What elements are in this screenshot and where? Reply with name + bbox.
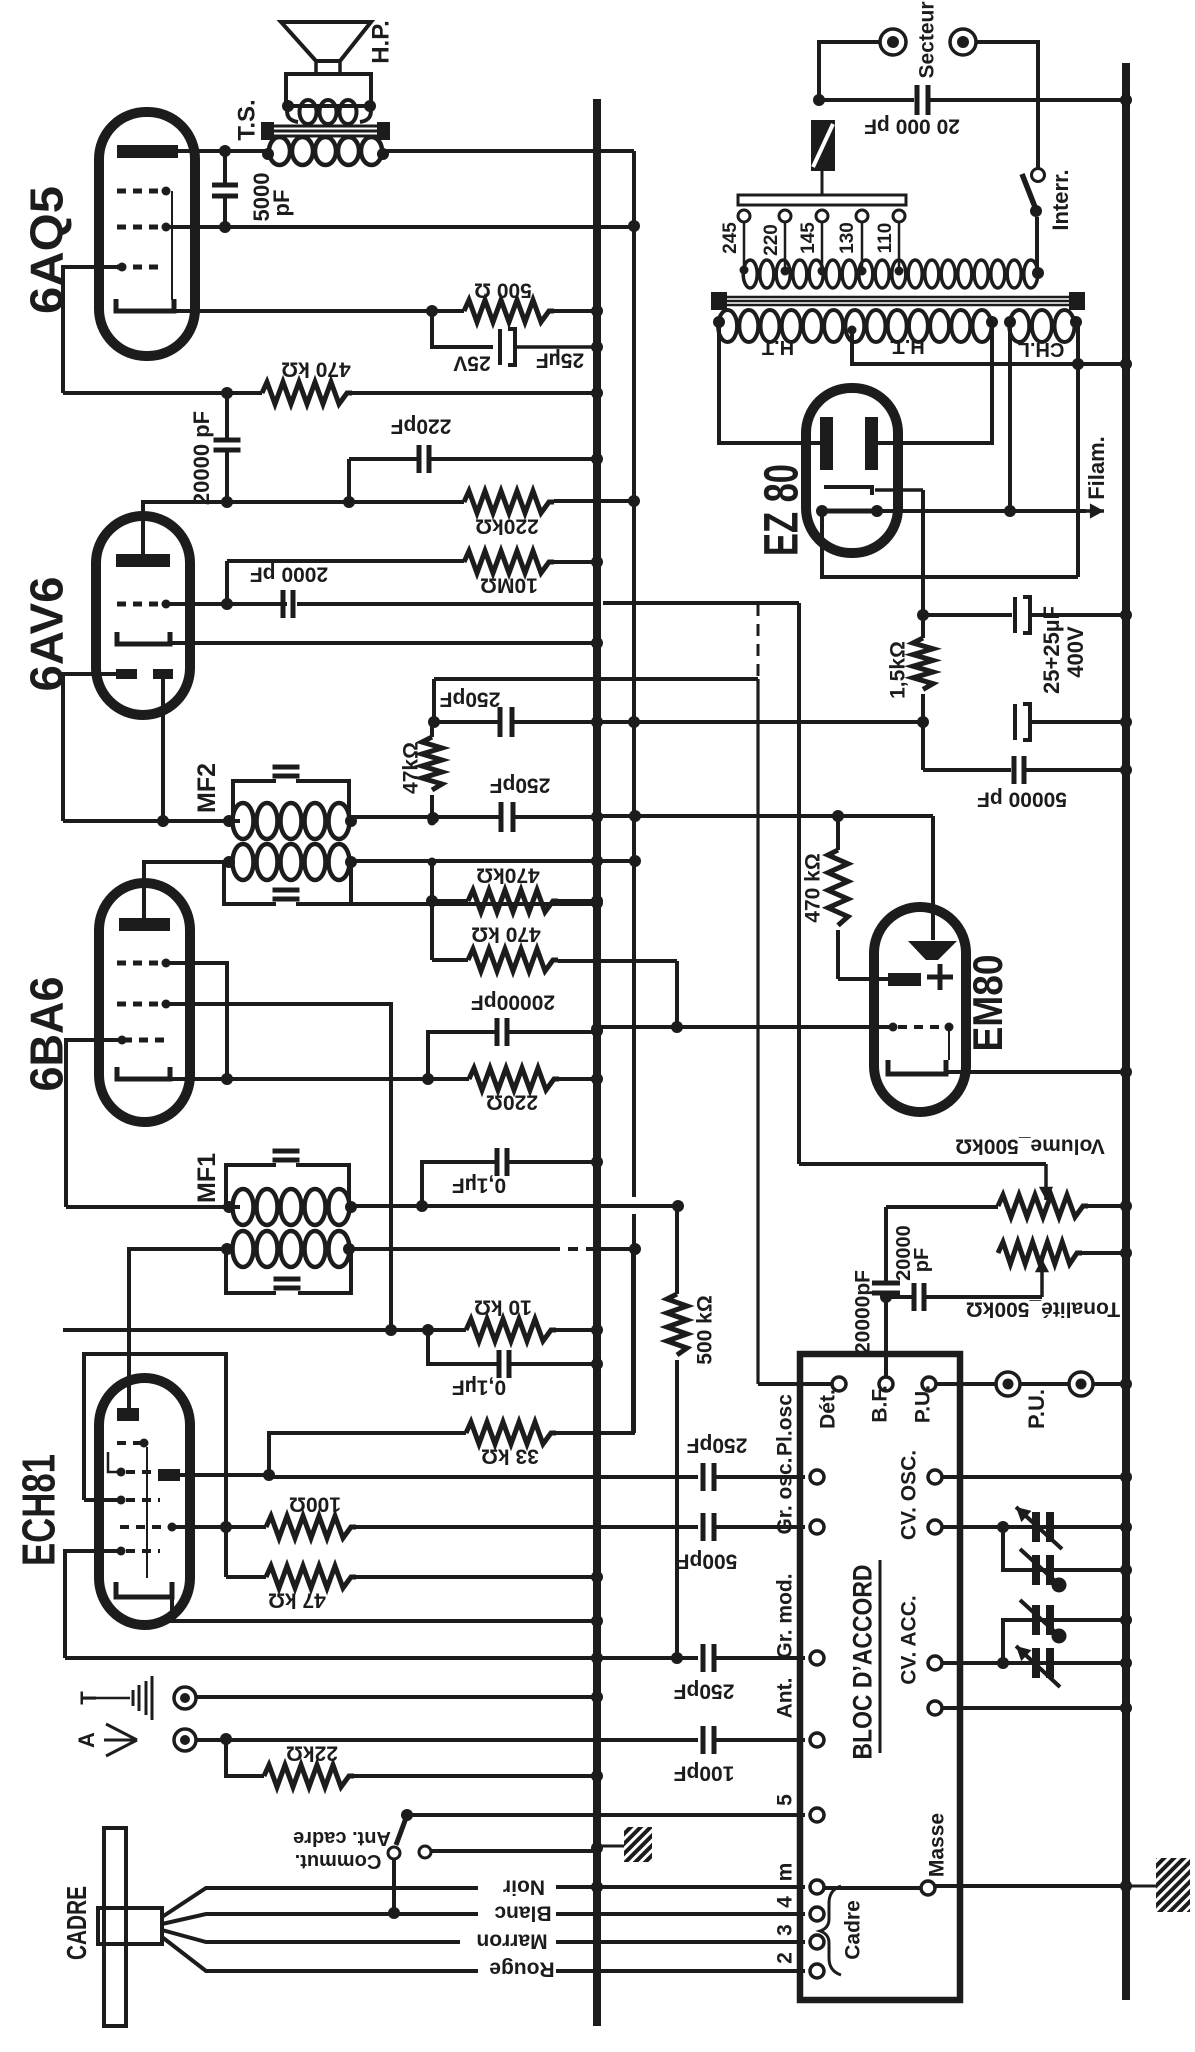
svg-text:100Ω: 100Ω	[289, 1492, 341, 1515]
svg-text:250pF: 250pF	[673, 1679, 734, 1702]
svg-text:CV. OSC.: CV. OSC.	[898, 1450, 921, 1540]
wire 6BA6 cathode row	[170, 1077, 469, 1081]
terminal 4	[810, 1907, 824, 1921]
svg-text:25+25µF: 25+25µF	[1039, 606, 1064, 694]
svg-text:110: 110	[875, 223, 896, 254]
terminal P.U. (block)	[922, 1377, 936, 1391]
svg-text:220: 220	[761, 224, 782, 256]
terminal Gr. mod.	[810, 1651, 824, 1665]
trimmer capacitor acc 2	[1003, 1661, 1126, 1665]
svg-text:10MΩ: 10MΩ	[480, 573, 538, 596]
ECH81 heptode plate bar	[158, 1469, 180, 1481]
svg-text:Dét.: Dét.	[817, 1389, 840, 1429]
svg-text:20000pF: 20000pF	[471, 990, 555, 1013]
svg-text:H.P.: H.P.	[368, 20, 395, 64]
svg-text:250pF: 250pF	[686, 1433, 747, 1456]
wire 6AQ5 cathode row	[174, 309, 464, 313]
ground hatch (chassis) near bus	[601, 1845, 624, 1848]
svg-text:Gr. mod.: Gr. mod.	[774, 1573, 797, 1658]
trimmer capacitor osc 2 loop	[1003, 1527, 1126, 1570]
svg-text:25µF: 25µF	[536, 348, 584, 371]
MF1 secondary tank box	[226, 1249, 351, 1293]
wire MF2 box to ground bus	[351, 902, 597, 906]
svg-text:CH.L: CH.L	[1018, 338, 1065, 360]
wire 6AQ5 grid feedback loop	[63, 267, 122, 393]
terminal CV OSC	[928, 1470, 942, 1484]
resistor 500 kΩ	[675, 1206, 679, 1294]
wire detector row to bus	[351, 859, 597, 863]
EM80 target	[908, 941, 957, 960]
svg-text:470kΩ: 470kΩ	[476, 863, 540, 886]
EM80 grid bar	[888, 973, 921, 986]
switch Interr.	[1032, 169, 1045, 182]
wire EM80 grid row to bus	[597, 1025, 893, 1029]
capacitor 500pF (Gr.osc)	[701, 1513, 706, 1541]
svg-text:Secteur: Secteur	[916, 1, 939, 78]
6AQ5 control grid (dashed)	[117, 265, 160, 270]
capacitor 100pF (Ant)	[701, 1726, 706, 1754]
capacitor 50000pF	[1012, 756, 1017, 784]
capacitor 25+25µF second	[1013, 704, 1017, 740]
MF2 primary winding	[233, 803, 254, 839]
tap plug 130	[856, 210, 868, 222]
6AQ5 grid 3 (dashed)	[117, 189, 160, 194]
wire AVC row to EM80 grid row	[675, 961, 679, 1027]
capacitor 250pF (Gr.mod)	[701, 1644, 706, 1672]
wire switch common to terminal 5 row	[407, 1813, 805, 1817]
EM80 cathode	[888, 1060, 946, 1074]
wire 470k to grid bar	[838, 977, 888, 981]
loudspeaker H.P. horn	[281, 22, 371, 61]
svg-text:220pF: 220pF	[390, 414, 451, 437]
ECH81 internal screen link	[146, 1447, 148, 1578]
resistor 10kΩ	[466, 1319, 556, 1341]
capacitor 20000pF (B.F.)	[872, 1281, 900, 1286]
wire switch to transformer primary	[1035, 217, 1039, 273]
wire mains left to fuse	[819, 42, 880, 100]
resistor 470kΩ (AVC upper)	[426, 895, 438, 907]
capacitor 0,1µF (AVC)	[422, 1162, 496, 1206]
terminal 2	[810, 1964, 824, 1978]
wire 220pF stub	[347, 459, 351, 502]
wire MF1 secondary to ECH81	[129, 1249, 227, 1408]
svg-text:470 kΩ: 470 kΩ	[471, 922, 540, 945]
wire MF1 secondary row (dash-dot) to B+ vertical	[352, 1247, 560, 1251]
wire detector vertical (dashed section)	[757, 604, 760, 679]
wire grid1 row with 100Ω	[172, 1525, 266, 1529]
6AQ5 anode plate	[117, 145, 178, 158]
svg-text:1,5kΩ: 1,5kΩ	[887, 641, 910, 699]
svg-text:ECH81: ECH81	[13, 1454, 65, 1566]
wire HT left to EZ80 plate	[719, 322, 820, 443]
resistor 470kΩ (6AQ5 grid)	[262, 382, 352, 404]
wire B+ row	[434, 720, 498, 724]
svg-text:m: m	[774, 1863, 797, 1882]
capacitor 5000pF	[223, 155, 227, 185]
terminal 5	[810, 1808, 824, 1822]
svg-text:T.S.: T.S.	[234, 99, 261, 140]
terminal Masse	[824, 1886, 921, 1890]
wire Masse to chassis ground	[935, 1884, 1126, 1888]
svg-text:250pF: 250pF	[489, 773, 550, 796]
6BA6 anode plate	[119, 918, 170, 931]
capacitor 25µF 25V electrolytic	[498, 329, 502, 365]
potentiometer Tonalité 500kΩ	[998, 1242, 1082, 1264]
svg-text:0,1µF: 0,1µF	[452, 1173, 506, 1196]
arrow Filam.	[1086, 509, 1104, 513]
wire CH.L right to cathode loop	[1076, 322, 1080, 577]
MF2 primary capacitor	[273, 765, 300, 770]
svg-text:EZ 80: EZ 80	[755, 464, 808, 556]
voice coil of loudspeaker	[300, 100, 317, 124]
wire bus bridge to B+ vertical	[597, 859, 635, 863]
wire EM80 branch vertical	[797, 603, 801, 1164]
47kΩ vertical resistor	[430, 722, 434, 737]
ground hatch (chassis) right	[1156, 1858, 1190, 1912]
wire detector vertical to Det terminal	[756, 679, 759, 1384]
terminal Gr. osc.	[810, 1520, 824, 1534]
wire heptode plate row	[180, 1473, 269, 1477]
svg-text:4: 4	[774, 1896, 797, 1908]
terminal Secteur left	[880, 29, 906, 55]
wire 470k node to detector row	[430, 862, 434, 901]
wire grid4 to outer loop	[84, 1498, 121, 1502]
wire Gr.mod row	[65, 1656, 597, 1660]
wire between jacks	[1020, 1382, 1069, 1386]
svg-text:500 Ω: 500 Ω	[474, 278, 532, 301]
resistor 220Ω	[469, 1068, 559, 1090]
terminal Det	[758, 1382, 832, 1386]
MF1 secondary winding	[233, 1231, 254, 1267]
wire B.F. vertical	[884, 1207, 888, 1283]
EM80 internal link	[948, 1027, 950, 1060]
resistor 22kΩ	[264, 1765, 354, 1787]
wire MF1 primary row	[66, 1205, 240, 1209]
wire cadre Blanc	[162, 1914, 478, 1924]
svg-text:20 000 pF: 20 000 pF	[864, 114, 960, 137]
svg-text:5: 5	[774, 1794, 797, 1806]
wire grid row to 2000pF	[166, 602, 287, 606]
underline	[879, 1560, 882, 1753]
svg-text:33 kΩ: 33 kΩ	[481, 1444, 539, 1467]
wire tone branch	[886, 1295, 913, 1299]
ECH81 grid3 (dashed)	[117, 1547, 126, 1556]
MF1 primary winding	[233, 1189, 254, 1225]
wire EM80 target feed row	[597, 814, 933, 818]
svg-text:CADRE: CADRE	[61, 1886, 92, 1960]
svg-text:2: 2	[774, 1952, 797, 1964]
svg-text:220Ω: 220Ω	[486, 1090, 538, 1113]
EM80 plus sign	[938, 964, 943, 990]
wire plate row w/ 220pF stub	[227, 500, 464, 504]
svg-text:130: 130	[837, 222, 858, 254]
wire 25µF bypass loop	[432, 311, 493, 347]
tap plug 245	[738, 210, 750, 222]
EM80 control grid (dashed)	[898, 1025, 944, 1029]
6AV6 anode plate	[116, 554, 170, 567]
svg-text:470 kΩ: 470 kΩ	[802, 853, 825, 922]
wire volume left to B.F. vertical	[886, 1205, 998, 1209]
svg-text:Noir: Noir	[503, 1875, 545, 1898]
svg-text:10 kΩ: 10 kΩ	[474, 1295, 532, 1318]
wire antenna row to Ant capacitor	[196, 1738, 698, 1742]
wire cadre Rouge	[162, 1937, 478, 1971]
MF1 primary tank box	[226, 1165, 349, 1207]
svg-text:Masse: Masse	[926, 1813, 949, 1877]
svg-text:Blanc: Blanc	[494, 1901, 552, 1924]
capacitor 25+25µF first	[923, 613, 1012, 617]
wire P.U. to jacks	[936, 1382, 996, 1386]
svg-text:Pl.osc: Pl.osc	[774, 1394, 797, 1456]
wire grid2 to MF1	[66, 1040, 122, 1207]
ECH81 oscillator grid (dashed)	[117, 1468, 126, 1477]
6AV6 diode plates	[116, 669, 137, 679]
terminal 3	[810, 1935, 824, 1949]
MF2 secondary tank box	[224, 862, 351, 904]
svg-text:A: A	[74, 1732, 99, 1748]
6BA6 grid1 (dashed)	[117, 1002, 160, 1007]
wire filament row	[877, 509, 1086, 513]
wire 6AV6 plate up to 220kΩ row	[143, 502, 227, 554]
terminal Pl.osc	[810, 1470, 824, 1484]
terminal Ant.	[810, 1733, 824, 1747]
jack P.U. 1	[996, 1372, 1020, 1396]
EZ80 anode plates	[820, 417, 833, 470]
svg-text:Ant.: Ant.	[774, 1678, 797, 1719]
ECH81 grid1 (dashed)	[120, 1525, 166, 1529]
wire MF2 primary row	[63, 819, 240, 823]
wire 6AQ5 plate to T.S. primary	[178, 149, 268, 153]
capacitor 250pF (B+)	[498, 707, 503, 737]
svg-text:145: 145	[798, 222, 819, 254]
wire EZ80 cathode bottom loop	[822, 511, 1078, 577]
terminal A	[174, 1729, 196, 1751]
svg-text:20000 pF: 20000 pF	[189, 411, 214, 505]
svg-text:Commut.: Commut.	[295, 1850, 382, 1872]
wire MF1 primary row to 500kΩ	[351, 1204, 678, 1208]
MF2 secondary winding	[233, 844, 254, 880]
svg-text:MF2: MF2	[193, 763, 221, 813]
wire grid row right of bus to EM80 branch	[603, 601, 799, 605]
wire T.S. secondary to B+ drop	[383, 149, 634, 153]
svg-text:Cadre: Cadre	[842, 1900, 865, 1960]
6AQ5 internal beam connection	[171, 191, 173, 300]
wire right diode down to MF2 row	[161, 679, 165, 821]
svg-text:250pF: 250pF	[439, 687, 500, 710]
wire HT center tap to bus	[852, 330, 1126, 364]
loudspeaker body	[286, 74, 371, 106]
capacitor 2000pF	[281, 590, 286, 618]
transformer T.S. core	[266, 125, 389, 128]
tube 6AV6 envelope	[96, 516, 190, 715]
svg-text:220kΩ: 220kΩ	[475, 514, 539, 537]
resistor 100Ω	[266, 1516, 356, 1538]
wire switch contact to ground bus	[431, 1849, 597, 1853]
terminal B.F.	[884, 1377, 888, 1384]
transformer primary winding	[743, 260, 757, 288]
wire 6AV6 cathode to ground bus	[170, 641, 597, 645]
wire mains right to switch	[976, 42, 1038, 168]
wire ECH81 cathode to ground bus	[172, 1597, 597, 1621]
wire volume right to bus	[1088, 1204, 1126, 1208]
ECH81 cathode	[116, 1582, 172, 1597]
wire T to ground bus	[196, 1695, 597, 1699]
earth symbol	[96, 1697, 130, 1700]
terminal CV acc 2	[928, 1701, 942, 1715]
wire central ground bus	[593, 99, 601, 2026]
resistor 1,5kΩ	[913, 638, 933, 689]
svg-text:500pF: 500pF	[676, 1549, 737, 1572]
svg-text:P.U.: P.U.	[912, 1385, 935, 1423]
EZ80 cathode	[824, 487, 872, 495]
voltage selector bar	[738, 195, 906, 205]
resistor 470 kΩ (EM80 grid)	[836, 816, 840, 850]
wire EZ80 cathode B+ takeoff	[921, 490, 925, 615]
ECH81 heptode grid2 (dashed)	[117, 1441, 140, 1445]
capacitor 250pF (Pl.osc)	[701, 1463, 706, 1491]
antenna symbol	[104, 1724, 137, 1756]
capacitor 20 000 pF (mains)	[819, 98, 914, 102]
svg-text:500 kΩ: 500 kΩ	[694, 1295, 717, 1364]
terminal CV osc gang	[928, 1520, 942, 1534]
6AV6 cathode	[117, 632, 170, 644]
svg-text:100pF: 100pF	[673, 1761, 734, 1784]
wire plate junction to 33kΩ row	[269, 1433, 466, 1475]
svg-text:EM80: EM80	[964, 955, 1011, 1052]
wire left diode to MF2 loop	[63, 674, 116, 821]
MF1 secondary capacitor	[274, 1277, 301, 1282]
ECH81 outer grid loop	[84, 1354, 226, 1577]
tube EZ80 envelope	[806, 388, 898, 553]
wire 100Ω row to Gr.osc capacitor	[356, 1525, 698, 1529]
tube 6BA6 envelope	[99, 883, 190, 1122]
resistor 470kΩ (AVC lower)	[430, 901, 434, 960]
wire row 679 (AF feed)	[434, 679, 758, 722]
tap plug 145	[816, 210, 828, 222]
resistor 10MΩ	[464, 551, 554, 573]
6AV6 grid (dashed)	[117, 602, 160, 607]
capacitor 220pF	[349, 457, 419, 461]
svg-text:H.T.: H.T.	[889, 335, 925, 357]
svg-text:Volume_500kΩ: Volume_500kΩ	[955, 1134, 1105, 1157]
svg-text:47 kΩ: 47 kΩ	[268, 1588, 326, 1611]
terminal Secteur right	[950, 29, 976, 55]
tap plug 110	[893, 210, 905, 222]
svg-text:Rouge: Rouge	[489, 1957, 554, 1980]
wire grid1 row with 470kΩ	[63, 391, 262, 395]
svg-text:Filam.: Filam.	[1084, 436, 1109, 500]
svg-text:H.T: H.T	[762, 336, 794, 358]
capacitor 20000pF (cathode)	[428, 1032, 496, 1079]
tube EM80 envelope	[874, 907, 966, 1112]
svg-text:470 kΩ: 470 kΩ	[281, 357, 350, 380]
potentiometer Volume 500kΩ	[998, 1195, 1088, 1217]
svg-text:B.F.: B.F.	[869, 1385, 892, 1422]
wire 10MΩ branch	[225, 561, 229, 604]
trimmer capacitor osc 1	[1003, 1525, 1126, 1529]
6BA6 cathode	[117, 1067, 170, 1079]
wire MF2 secondary to 6BA6 plate	[144, 862, 229, 918]
svg-text:0,1µF: 0,1µF	[452, 1375, 506, 1398]
wire grid3 down to Gr.mod row	[65, 1551, 121, 1658]
MF2 primary tank box	[233, 781, 349, 821]
svg-text:3: 3	[774, 1924, 797, 1936]
transformer T.S. primary winding	[269, 137, 290, 165]
wire 33kΩ to B+ vertical	[556, 1249, 633, 1433]
svg-text:Tonalité_500kΩ: Tonalité_500kΩ	[966, 1297, 1120, 1320]
wire long row to 10kΩ	[63, 1328, 466, 1332]
wire grid1 to AVC line	[166, 1004, 391, 1330]
ECH81 grid4 (dashed)	[117, 1496, 126, 1505]
fuse	[811, 120, 835, 171]
wire screen grid to 5000pF node	[166, 225, 225, 229]
trimmer capacitor acc 1 loop	[1003, 1620, 1126, 1663]
wire jack to right bus	[1093, 1382, 1126, 1386]
ECH81 triode plate bar	[117, 1408, 139, 1421]
capacitor 0,1µF (osc grid)	[428, 1330, 498, 1364]
capacitor 20000 pF (tone)	[912, 1283, 917, 1311]
svg-text:BLOC D’ACCORD: BLOC D’ACCORD	[848, 1565, 878, 1760]
svg-text:22kΩ: 22kΩ	[286, 1741, 338, 1764]
resistor 220kΩ	[464, 491, 554, 513]
wire cadre Marron	[162, 1930, 460, 1942]
wire MF2 primary to bus (B+ row)	[351, 815, 499, 819]
tube ECH81 envelope	[99, 1378, 190, 1625]
switch Commut. Ant-cadre	[401, 1809, 413, 1821]
svg-text:pF: pF	[911, 1248, 933, 1272]
svg-text:Marron: Marron	[476, 1929, 547, 1952]
jack P.U. 2	[1069, 1372, 1093, 1396]
tap plug 220	[779, 210, 791, 222]
resistor 47 kΩ (osc)	[226, 1575, 266, 1579]
svg-text:245: 245	[720, 222, 741, 254]
transformer HT secondary winding	[718, 310, 737, 342]
brace Cadre	[820, 1886, 841, 1975]
transformer CH.L winding	[1009, 310, 1029, 342]
wire grid3 to cathode node	[166, 963, 227, 1079]
tube 6AQ5 envelope	[99, 112, 195, 356]
6AQ5 cathode	[116, 299, 174, 311]
svg-text:pF: pF	[269, 190, 294, 217]
svg-text:Gr. osc.: Gr. osc.	[774, 1457, 797, 1534]
svg-text:25V: 25V	[453, 351, 490, 374]
transformer core	[716, 296, 1079, 299]
wire right ground bus	[1122, 63, 1130, 2000]
wire tone pot to bus	[1082, 1251, 1126, 1255]
svg-text:400V: 400V	[1063, 626, 1088, 678]
tuning block BLOC D'ACCORD box	[800, 1354, 960, 2000]
wire 500Ω to ground bus	[554, 309, 597, 313]
capacitor 250pF (detector filter)	[499, 802, 504, 832]
terminal m	[810, 1880, 824, 1894]
svg-text:CV. ACC.: CV. ACC.	[898, 1595, 921, 1684]
wire 22kΩ branch	[226, 1739, 264, 1776]
wire CH.L left to filament row	[1008, 322, 1012, 511]
svg-text:20000pF: 20000pF	[852, 1270, 875, 1354]
capacitor 20000pF coupling	[225, 393, 229, 440]
wire B+ vertical line x=634	[632, 151, 636, 1197]
svg-text:50000 pF: 50000 pF	[977, 787, 1067, 810]
terminal CV ACC	[928, 1656, 942, 1670]
MF2 secondary capacitor	[273, 888, 300, 893]
terminal T	[174, 1687, 196, 1709]
loudspeaker neck	[316, 61, 340, 74]
6AQ5 screen grid (dashed)	[117, 225, 160, 230]
wire cadre Noir	[162, 1888, 478, 1917]
wire to volume wiper	[799, 1162, 1046, 1166]
resistor 500Ω	[464, 300, 554, 322]
wire switch to Blanc wire	[392, 1859, 396, 1914]
